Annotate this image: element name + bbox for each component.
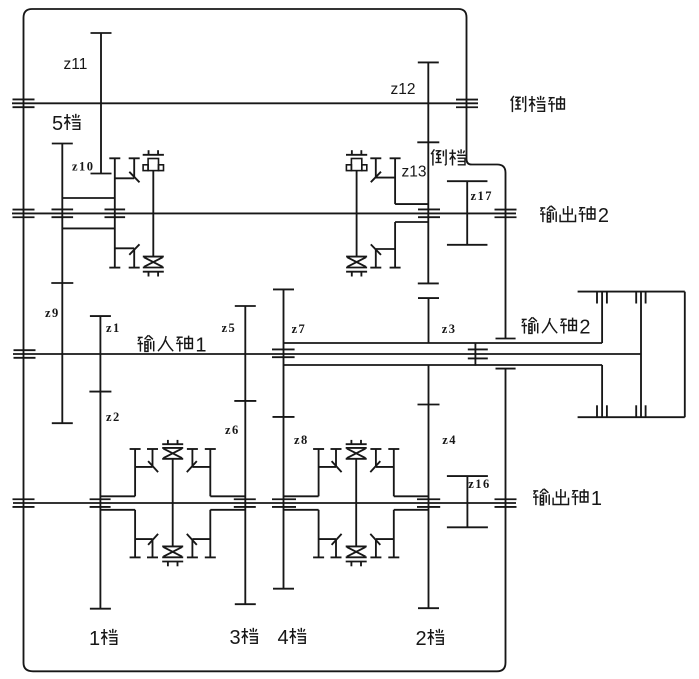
shift fork right upper (assembly x=172.7) (187, 449, 210, 467)
gear z12 / gear z13 pair line (reverse gear train) (417, 62, 439, 283)
bearing: reverse shaft in right housing wall (456, 100, 478, 108)
svg-text:z11: z11 (64, 56, 88, 73)
fork slash left lower (assembly x=356.2) (332, 534, 342, 545)
synchroniser ring above shaft (assembly x=172.7) (162, 440, 183, 459)
svg-text:1: 1 (89, 628, 100, 650)
connector hub to gear z13, upper (395, 203, 429, 205)
synchro hub ring left lower (assembly x=172.7) (130, 510, 141, 558)
input shaft 1 line (solid inner shaft) (13, 353, 641, 355)
svg-text:z1: z1 (106, 321, 121, 335)
spline ticks top K2 (597, 292, 607, 304)
bearing: reverse shaft in left housing wall (13, 99, 35, 107)
hub bars: gear z4 free on output shaft 1 (417, 499, 440, 507)
connector to right gear lower (assembly x=172.7) (210, 509, 245, 511)
fork slash right lower (assembly x=172.7) (187, 534, 197, 545)
gear z5 / gear z6 pair line (3rd gear train) (234, 306, 256, 604)
bearing: output shaft 2 in left housing wall (13, 210, 35, 218)
label shu ru zhou 2 (input shaft 2) (522, 317, 591, 339)
fork slash upper right (371, 172, 381, 183)
svg-text:z13: z13 (402, 164, 427, 181)
synchroniser ring below output shaft 2 right (346, 257, 367, 277)
svg-text:5: 5 (52, 113, 63, 135)
synchro hub ring left upper (assembly x=356.2) (313, 449, 324, 496)
connector to right gear lower (assembly x=356.2) (394, 509, 429, 511)
synchro hub ring right upper (assembly x=172.7) (205, 449, 216, 496)
fork slash left upper (assembly x=356.2) (332, 461, 342, 472)
spline ticks bottom K1 (636, 405, 645, 417)
synchro hub ring right upper (assembly x=356.2) (388, 449, 399, 496)
svg-text:4: 4 (278, 627, 289, 649)
shift fork output shaft 2 right, upper (370, 158, 395, 177)
connector gear z10 to hub, upper (62, 197, 115, 199)
synchroniser ring above shaft (assembly x=356.2) (346, 440, 367, 459)
svg-text:z3: z3 (442, 322, 457, 336)
connector to left gear upper (assembly x=172.7) (100, 495, 135, 497)
clutch housing drum right wall (684, 292, 686, 418)
border cap above input-shaft pass-through (496, 338, 516, 340)
svg-text:z6: z6 (225, 423, 240, 437)
clutch disc K1 (to solid input shaft 1) (640, 292, 642, 418)
svg-text:z9: z9 (45, 306, 60, 320)
svg-text:2: 2 (579, 317, 590, 339)
bearing: output shaft 1 in left housing wall (13, 499, 35, 507)
shift fork right lower (assembly x=172.7) (187, 539, 210, 557)
dog clutch collar on output shaft 2 left (143, 150, 164, 170)
shift fork output shaft 2 right, lower (370, 249, 395, 268)
gear z3 upper half on input sleeve (418, 298, 439, 343)
gear z1 / gear z2 pair line (1st gear train) (89, 316, 111, 609)
synchroniser ring below shaft (assembly x=356.2) (346, 546, 367, 566)
hub bars: gear z2 free on output shaft 1 (90, 499, 111, 507)
fork slash right upper (assembly x=356.2) (370, 461, 380, 472)
svg-text:z7: z7 (292, 322, 307, 336)
synchroniser ring below shaft (assembly x=172.7) (162, 546, 183, 566)
spline ticks top K1 (636, 292, 645, 304)
shift fork left lower (assembly x=356.2) (319, 539, 342, 557)
shift fork left upper (assembly x=172.7) (135, 449, 158, 467)
shift fork output shaft 2 left, upper (115, 158, 140, 178)
label shu ru zhou 1 (input shaft 1) (138, 335, 207, 357)
label shu chu zhou 2 (output shaft 2) (540, 205, 609, 227)
bearing: output shaft 1 in right housing wall (495, 499, 517, 507)
bearing: input shaft 1 in left housing wall (14, 350, 36, 358)
shift fork right lower (assembly x=356.2) (370, 539, 393, 557)
clutch housing drum bottom wall (578, 416, 685, 418)
label 3 dang (3rd gear) (230, 627, 259, 649)
dog clutch collar on output shaft 2 right (346, 150, 367, 170)
label dao dang zhou (reverse shaft) (511, 96, 565, 112)
collar stem output shaft 2 left (152, 171, 154, 257)
connector to right gear upper (assembly x=172.7) (210, 495, 245, 497)
connector to left gear upper (assembly x=356.2) (284, 495, 319, 497)
bearing: output shaft 2 in right housing wall (495, 210, 517, 218)
label shu chu zhou 1 (output shaft 1) (533, 488, 602, 510)
hub bars: gear z6 free on output shaft 1 (234, 499, 256, 507)
shift fork right upper (assembly x=356.2) (370, 449, 393, 467)
shift fork left upper (assembly x=356.2) (319, 449, 342, 467)
border cap below input-shaft pass-through (496, 368, 516, 370)
gear z16 on output shaft 1 (447, 476, 488, 527)
label 4 dang (4th gear) (278, 627, 307, 649)
synchro hub sleeve on output shaft 2 right (390, 158, 401, 267)
gear z11 on reverse shaft (91, 33, 112, 174)
connector to left gear lower (assembly x=356.2) (284, 509, 319, 511)
svg-text:1: 1 (591, 488, 602, 510)
gear z7 / gear z8 pair line (4th gear train) (273, 289, 295, 588)
svg-text:z10: z10 (72, 160, 95, 174)
reverse shaft line (dao dang zhou) (12, 102, 478, 104)
fork slash right lower (assembly x=356.2) (370, 534, 380, 545)
clutch housing drum top wall (578, 291, 685, 293)
input shaft 2 hollow sleeve upper wall (284, 342, 603, 344)
gear z17 on output shaft 2 (447, 181, 488, 245)
output shaft 1 line (13, 502, 516, 504)
svg-text:z16: z16 (468, 477, 491, 491)
label 5 dang (5th gear) (52, 113, 81, 135)
fork slash right upper (assembly x=172.7) (187, 461, 197, 472)
fork slash lower right (371, 244, 381, 255)
label dao dang (reverse gear) (431, 149, 466, 165)
fork slash upper (129, 172, 139, 183)
svg-text:z5: z5 (222, 321, 237, 335)
synchro hub ring left lower (assembly x=356.2) (313, 510, 324, 558)
collar stem through shaft (assembly x=172.7) (172, 459, 174, 547)
fork slash lower (129, 244, 139, 255)
svg-text:z8: z8 (294, 433, 309, 447)
label 2 dang (2nd gear) (416, 628, 445, 650)
hub bars: gear z13 free on output shaft 2 (418, 209, 440, 217)
synchro hub sleeve on output shaft 2 left (109, 158, 120, 267)
connector gear z10 to hub, lower (62, 227, 115, 229)
synchro hub ring right lower (assembly x=356.2) (388, 510, 399, 558)
hub bars: gear z10 free on output shaft 2 (52, 209, 74, 217)
connector hub to gear z13, lower (395, 221, 429, 223)
gearbox housing case border (24, 9, 506, 671)
shift fork output shaft 2 left, lower (115, 248, 140, 267)
synchro hub ring left upper (assembly x=172.7) (130, 449, 141, 496)
hub bars: gear z7 on input sleeve (272, 349, 295, 357)
input shaft 2 hollow sleeve lower wall (284, 364, 603, 366)
fork slash left upper (assembly x=172.7) (148, 461, 158, 472)
collar stem output shaft 2 right (356, 171, 358, 257)
svg-text:3: 3 (230, 627, 241, 649)
shift fork left lower (assembly x=172.7) (135, 539, 158, 557)
connector to left gear lower (assembly x=172.7) (100, 509, 135, 511)
hub bars: synchro hub on output shaft 2 left (105, 209, 126, 217)
gear z10 / gear z9 pair line (5th gear train) (51, 144, 73, 424)
label 1 dang (1st gear) (89, 628, 118, 650)
svg-text:z4: z4 (442, 433, 457, 447)
hub bars: gear z8 free on output shaft 1 (272, 499, 296, 507)
clutch disc K2 (to hollow input shaft 2) (601, 292, 603, 418)
svg-text:2: 2 (416, 628, 427, 650)
svg-text:2: 2 (598, 205, 609, 227)
synchroniser ring below output shaft 2 left (143, 257, 164, 277)
synchro hub ring right lower (assembly x=172.7) (205, 510, 216, 558)
collar stem through shaft (assembly x=356.2) (355, 459, 357, 547)
svg-text:z12: z12 (391, 81, 416, 98)
svg-text:1: 1 (195, 335, 206, 357)
svg-text:z2: z2 (106, 410, 121, 424)
output shaft 2 line (12, 212, 516, 214)
spline ticks bottom K2 (597, 405, 607, 417)
gear z3 lower half / gear z4 line (2nd gear train) (418, 365, 440, 608)
connector to right gear upper (assembly x=356.2) (394, 495, 429, 497)
fork slash left lower (assembly x=172.7) (148, 534, 158, 545)
svg-text:z17: z17 (471, 189, 494, 203)
bearing: input shaft 2 sleeve support (468, 343, 488, 366)
